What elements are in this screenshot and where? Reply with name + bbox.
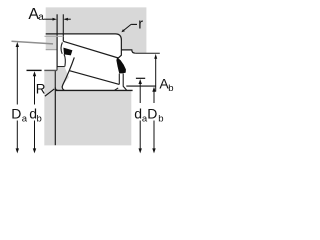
r leader line — [123, 24, 131, 31]
D_b level line — [126, 85, 155, 87]
cage skirt — [64, 54, 65, 66]
d_a level bar — [136, 77, 145, 79]
cone back rib face — [118, 74, 120, 85]
cage small-end black pocket — [63, 48, 72, 56]
A_a extension line (cup side) — [62, 14, 64, 34]
cage big-end black pocket — [116, 57, 126, 73]
cone raceway — [70, 71, 120, 85]
R leader — [45, 89, 54, 96]
cone bore back chamfer — [115, 88, 119, 90]
D_b dimension line — [152, 87, 155, 92]
housing shoulder bore extension line — [135, 52, 160, 54]
svg-text:r: r — [138, 16, 143, 32]
cover bore gray line — [45, 35, 64, 37]
shaft shoulder fillet R — [55, 87, 58, 90]
housing bore line — [46, 34, 122, 40]
shoulder face line — [54, 70, 56, 145]
cup back face — [118, 40, 121, 58]
cone front rib shading — [56, 67, 69, 90]
A_a extension line (shoulder side) — [56, 14, 58, 70]
cage bottom tick — [57, 66, 65, 68]
d_b dimension line — [33, 71, 36, 76]
cage lip front — [61, 42, 62, 53]
cone front face slant — [62, 57, 74, 90]
r leader dash — [131, 23, 137, 25]
d_a dimension line — [139, 79, 142, 84]
shaft with shoulder (gray block, bottom) — [44, 70, 131, 145]
cone back face — [123, 74, 126, 91]
housing front cover tab (gray, left of cup) — [46, 34, 57, 50]
cup raceway — [63, 41, 118, 58]
svg-text:R: R — [36, 82, 46, 97]
D_a dimension line — [16, 42, 19, 47]
svg-text:a: a — [38, 12, 44, 23]
shaft seat line — [55, 89, 132, 91]
A_a dimension arrows — [44, 18, 53, 20]
cup front face — [62, 34, 64, 41]
housing (gray block, top) — [46, 7, 147, 53]
D_a abutment gray line — [12, 41, 54, 44]
cover bottom edge — [46, 49, 57, 51]
svg-text:a: a — [22, 113, 28, 124]
shoulder top edge (d_b level) — [44, 69, 57, 71]
svg-text:D: D — [147, 106, 157, 122]
svg-text:b: b — [168, 83, 173, 94]
svg-text:d: d — [134, 106, 142, 122]
d_b black level bar — [27, 69, 42, 71]
svg-text:b: b — [158, 114, 163, 125]
housing shoulder relief line — [121, 50, 135, 53]
svg-text:b: b — [37, 114, 42, 125]
labels d_a D_b — [133, 105, 165, 121]
A_b dimension line — [154, 54, 157, 59]
svg-text:D: D — [11, 106, 21, 122]
